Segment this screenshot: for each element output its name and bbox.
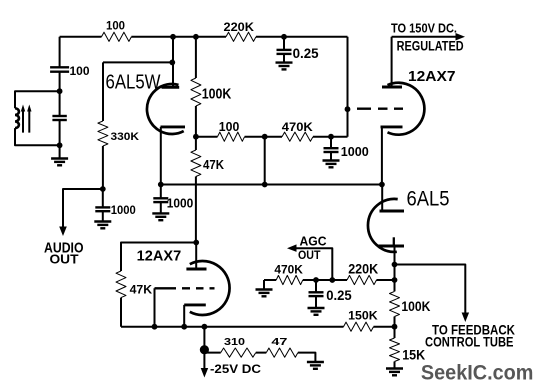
svg-text:1000: 1000 — [167, 196, 194, 211]
svg-text:310: 310 — [224, 337, 246, 348]
svg-text:47K: 47K — [130, 282, 153, 296]
svg-text:100K: 100K — [401, 298, 430, 314]
svg-text:CONTROL TUBE: CONTROL TUBE — [425, 334, 514, 349]
svg-text:12AX7: 12AX7 — [137, 249, 182, 265]
svg-text:0.25: 0.25 — [293, 45, 319, 61]
svg-text:1000: 1000 — [341, 144, 369, 159]
svg-text:REGULATED: REGULATED — [397, 38, 464, 53]
svg-text:AGC: AGC — [300, 234, 328, 249]
svg-text:12AX7: 12AX7 — [408, 69, 456, 85]
svg-text:470K: 470K — [274, 263, 303, 277]
svg-text:100K: 100K — [202, 86, 232, 102]
svg-text:330K: 330K — [111, 131, 140, 143]
svg-text:150K: 150K — [348, 308, 378, 322]
svg-text:1000: 1000 — [111, 203, 136, 217]
svg-text:OUT: OUT — [298, 248, 321, 262]
svg-text:100: 100 — [70, 64, 90, 78]
svg-text:220K: 220K — [224, 22, 255, 34]
svg-text:6AL5W: 6AL5W — [106, 71, 162, 94]
svg-text:47K: 47K — [203, 157, 225, 172]
svg-text:OUT: OUT — [50, 252, 79, 267]
svg-text:47: 47 — [271, 337, 288, 348]
svg-text:470K: 470K — [282, 122, 314, 134]
svg-text:SeekIC.com: SeekIC.com — [421, 361, 534, 385]
svg-text:220K: 220K — [348, 262, 378, 277]
svg-text:0.25: 0.25 — [326, 288, 352, 303]
svg-text:6AL5: 6AL5 — [407, 188, 450, 211]
svg-text:TO 150V DC.: TO 150V DC. — [391, 22, 457, 36]
svg-text:-25V DC: -25V DC — [210, 364, 261, 376]
svg-text:100: 100 — [219, 119, 240, 134]
svg-text:100: 100 — [106, 21, 125, 33]
